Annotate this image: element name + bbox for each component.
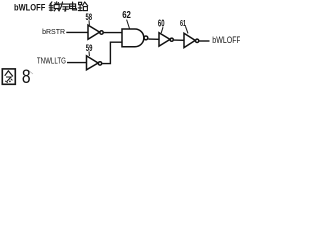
svg-text:bWLOFF: bWLOFF xyxy=(14,2,45,13)
svg-text:bRSTR: bRSTR xyxy=(42,27,65,36)
svg-text:62: 62 xyxy=(122,10,131,21)
svg-text:58: 58 xyxy=(86,12,93,22)
svg-text:61: 61 xyxy=(180,19,186,28)
svg-text:TNWLLTG: TNWLLTG xyxy=(37,56,66,66)
svg-text:60: 60 xyxy=(158,18,165,29)
svg-text:59: 59 xyxy=(86,43,93,53)
svg-text:8: 8 xyxy=(22,66,31,87)
svg-text:bWLOFF: bWLOFF xyxy=(212,35,240,45)
